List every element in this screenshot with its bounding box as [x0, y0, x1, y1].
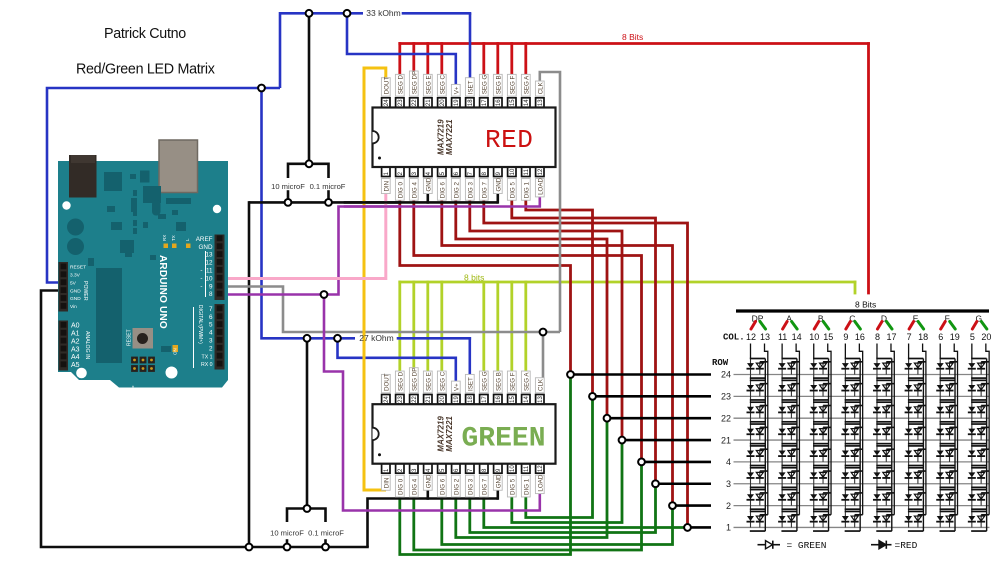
wire dark green DIG cascade pin x=441.8 to row node 6 [442, 495, 673, 545]
junction node row 4 [638, 459, 645, 466]
wire lime bus drop to matrix [854, 282, 857, 293]
junction node J7 [285, 199, 292, 206]
wire lime SEG stub x=441.8 [440, 282, 443, 374]
svg-text:GND: GND [70, 288, 81, 294]
matrix column C [841, 314, 865, 532]
matrix row 22 line [607, 417, 711, 420]
svg-text:ISET: ISET [467, 80, 474, 94]
svg-text:GND: GND [495, 474, 502, 488]
wire +5V blue riser to top rail [280, 13, 363, 88]
svg-text:21: 21 [426, 395, 432, 402]
svg-text:DIG 2: DIG 2 [453, 478, 460, 495]
svg-text:ISET: ISET [467, 377, 474, 391]
wire DIN pink from Arduino pin 10 to RED DIN [218, 192, 386, 279]
Arduino USB connector [159, 140, 198, 193]
wire red SEG stub x=497.8 [496, 44, 499, 77]
svg-text:13: 13 [205, 252, 213, 259]
svg-text:18: 18 [468, 395, 474, 402]
svg-text:6: 6 [209, 314, 213, 321]
junction node J5 [334, 335, 341, 342]
svg-text:A2: A2 [71, 338, 80, 345]
capacitor C1 10 microF lower lead [287, 192, 290, 203]
svg-text:Red/Green LED Matrix: Red/Green LED Matrix [76, 62, 215, 78]
Arduino crystal [152, 200, 161, 216]
wire LOAD purple patch over yellow/pink [345, 205, 400, 208]
wire +5V blue from Arduino 5V pin up left side [47, 88, 280, 283]
wire GND black bus under RED chip [249, 201, 498, 204]
wire dark green DIG cascade pin x=469.8 to row node 5 [470, 484, 656, 533]
wire dark red DIG cascade pin x=469.8 to row node 3 [470, 199, 622, 441]
svg-text:DIG 6: DIG 6 [439, 182, 446, 199]
resistor 27 kOhm (labelled gap in blue wire to GREEN ISET) [398, 337, 470, 340]
wire blue GREEN V+ branch [338, 338, 456, 383]
svg-text:LOAD: LOAD [537, 178, 544, 195]
svg-text:2: 2 [209, 345, 213, 352]
svg-text:SEG F: SEG F [509, 372, 516, 391]
wire red SEG stub x=399.8 [398, 44, 401, 77]
wire red bus drop to matrix [867, 44, 870, 294]
svg-text:11: 11 [206, 268, 213, 275]
capacitor C3 10 microF lower lead [286, 541, 289, 548]
svg-text:DIG 0: DIG 0 [397, 182, 404, 199]
svg-text:-: - [200, 283, 202, 290]
svg-text:22: 22 [412, 99, 418, 106]
svg-text:18: 18 [468, 99, 474, 106]
wire GND black bottom bus [249, 546, 368, 549]
svg-text:DOUT: DOUT [383, 373, 390, 391]
svg-text:24: 24 [721, 370, 731, 380]
svg-text:9: 9 [209, 283, 213, 290]
svg-text:RX 0: RX 0 [201, 362, 213, 368]
svg-text:= GREEN: = GREEN [787, 540, 827, 551]
svg-text:SEG B: SEG B [495, 372, 502, 391]
svg-text:11: 11 [778, 332, 787, 342]
svg-text:RESET: RESET [70, 265, 86, 271]
svg-text:1: 1 [726, 523, 731, 533]
svg-text:DIG 3: DIG 3 [467, 478, 474, 495]
svg-text:13: 13 [760, 332, 770, 342]
svg-text:17: 17 [482, 99, 488, 106]
junction node J4 [304, 335, 311, 342]
svg-text:SEG D: SEG D [397, 371, 404, 391]
svg-text:14: 14 [524, 395, 530, 402]
wire LOAD purple from Arduino pin 8 [218, 197, 540, 295]
svg-text:V+: V+ [453, 383, 460, 391]
capacitor bracket (GREEN chip decoupling pair) [287, 509, 326, 523]
svg-text:DOUT: DOUT [383, 77, 390, 95]
svg-text:8 bits: 8 bits [464, 273, 484, 283]
Arduino right header upper [215, 235, 225, 301]
matrix column B [809, 314, 833, 532]
svg-text:0.1 microF: 0.1 microF [308, 529, 344, 538]
svg-text:GND: GND [199, 244, 213, 251]
wire GND stub GREEN pin9 [496, 490, 499, 499]
junction node row 2 [669, 502, 676, 509]
svg-text:V+: V+ [453, 86, 460, 94]
svg-text:DIG 7: DIG 7 [481, 478, 488, 495]
svg-text:A0: A0 [71, 323, 80, 330]
svg-text:POWER: POWER [82, 281, 88, 301]
svg-text:CLK: CLK [537, 81, 544, 94]
svg-text:20: 20 [981, 332, 991, 342]
svg-text:SEG C: SEG C [439, 75, 446, 95]
svg-text:11: 11 [524, 465, 530, 472]
svg-text:TX 1: TX 1 [202, 354, 213, 360]
wire CLK gray riser to RED CLK [540, 72, 560, 332]
svg-text:2: 2 [726, 501, 731, 511]
svg-text:4: 4 [726, 457, 731, 467]
svg-text:10: 10 [510, 168, 516, 175]
svg-text:DIG 0: DIG 0 [397, 478, 404, 495]
svg-text:10 microF: 10 microF [270, 529, 304, 538]
svg-text:15: 15 [510, 395, 516, 402]
svg-text:GND: GND [495, 177, 502, 191]
LED matrix 8x8 bicolor [571, 300, 992, 533]
wire blue RED ISET drop [469, 13, 472, 81]
matrix row 21 line [622, 439, 711, 442]
wire dark red DIG cascade pin x=399.8 to row node 0 [400, 199, 571, 375]
wire dark red DIG cascade pin x=455.8 to row node 2 [456, 199, 607, 419]
svg-text:5V: 5V [70, 280, 77, 286]
svg-text:24: 24 [384, 99, 390, 106]
wire blue RED V+ branch [347, 13, 456, 87]
svg-text:13: 13 [538, 99, 544, 106]
wire red SEG stub x=511.8 [510, 44, 513, 77]
svg-text:ICSP: ICSP [131, 385, 136, 396]
svg-text:SEG DP: SEG DP [411, 71, 418, 94]
Arduino right header lower [215, 304, 225, 370]
svg-text:LOAD: LOAD [537, 474, 544, 491]
svg-text:18: 18 [918, 332, 928, 342]
capacitor bracket top (RED chip decoupling pair) [288, 164, 329, 178]
junction node J1 [258, 85, 265, 92]
matrix row 4 line [642, 461, 712, 464]
Arduino reset button [133, 328, 154, 349]
wire dark red DIG cascade pin x=441.8 to row node 6 [442, 199, 673, 506]
wire blue GREEN ISET drop [468, 338, 471, 377]
svg-text:DIG 4: DIG 4 [411, 478, 418, 495]
wire red SEG stub x=525.8 [524, 44, 527, 77]
svg-text:=RED: =RED [895, 540, 918, 551]
svg-text:Vin: Vin [70, 304, 77, 310]
wire dark red DIG cascade pin x=511.8 to row node 5 [512, 199, 656, 484]
svg-text:8: 8 [875, 332, 880, 342]
wire dark green DIG cascade pin x=399.8 to row node 0 [400, 375, 571, 555]
svg-text:19: 19 [454, 99, 460, 106]
svg-text:19: 19 [454, 395, 460, 402]
junction node row 24 [567, 371, 574, 378]
wire capacitor feed black from +5V rail [308, 13, 311, 164]
matrix 8 Bits top bus [736, 309, 989, 312]
svg-text:8 Bits: 8 Bits [855, 300, 876, 310]
svg-text:SEG B: SEG B [495, 75, 502, 94]
svg-text:10 microF: 10 microF [271, 182, 305, 191]
wire GND black drop from RED bus to bottom bus [248, 202, 251, 547]
Arduino TX RX L leds [164, 244, 169, 249]
wire dark green DIG cascade pin x=525.8 to row node 1 [526, 396, 593, 517]
svg-text:15: 15 [823, 332, 833, 342]
svg-text:10: 10 [510, 465, 516, 472]
wire lime SEG stub x=525.8 [524, 282, 527, 374]
legend green diode symbol [758, 540, 827, 551]
svg-text:SEG DP: SEG DP [411, 368, 418, 391]
wire lime 8 bits segment bus [400, 281, 855, 284]
svg-text:11: 11 [524, 168, 530, 175]
matrix column E [905, 314, 929, 532]
svg-text:27 kOhm: 27 kOhm [359, 333, 394, 343]
svg-text:22: 22 [412, 395, 418, 402]
svg-text:20: 20 [440, 99, 446, 106]
svg-text:-: - [200, 275, 202, 282]
svg-text:DIG 4: DIG 4 [411, 182, 418, 199]
svg-text:7: 7 [209, 306, 213, 313]
svg-text:12: 12 [538, 168, 544, 175]
svg-text:RESET: RESET [127, 329, 133, 346]
junction node J8 [325, 199, 332, 206]
svg-text:15: 15 [510, 99, 516, 106]
wire GND black from Arduino GND pin [41, 291, 249, 548]
junction node row 21 [619, 437, 626, 444]
junction node J13 [321, 291, 328, 298]
svg-text:AREF: AREF [196, 236, 213, 243]
wire dark green DIG cascade pin x=511.8 to row node 3 [512, 440, 622, 522]
wire lime SEG stub x=483.8 [482, 282, 485, 374]
matrix row 24 line [571, 373, 712, 376]
Arduino Uno board [58, 140, 228, 396]
junction node J6 [306, 160, 313, 167]
wire red SEG stub x=441.8 [440, 44, 443, 77]
Arduino left header POWER [59, 262, 69, 312]
junction node J2 [306, 10, 313, 17]
wire lime SEG stub x=427.8 [426, 282, 429, 374]
svg-text:DIG 7: DIG 7 [481, 182, 488, 199]
junction node row 3 [652, 480, 659, 487]
svg-text:24: 24 [384, 395, 390, 402]
capacitor C4 0.1 microF lower lead [324, 541, 327, 548]
svg-text:3.3V: 3.3V [70, 273, 81, 279]
matrix column A [778, 314, 802, 532]
svg-text:RX: RX [162, 235, 167, 241]
junction node J3 [344, 10, 351, 17]
svg-text:SEG E: SEG E [425, 75, 432, 94]
svg-text:A5: A5 [71, 362, 80, 369]
IC U1 MAX7219/MAX7221 (RED) [373, 71, 556, 200]
matrix row 23 line [593, 395, 712, 398]
wire lime SEG stub x=413.8 [412, 282, 415, 370]
svg-text:0.1 microF: 0.1 microF [310, 182, 346, 191]
svg-text:TX: TX [171, 235, 176, 241]
junction node J10 [284, 544, 291, 551]
svg-text:GREEN: GREEN [462, 424, 546, 455]
matrix row 1 line [688, 526, 712, 529]
matrix column F [936, 314, 960, 532]
svg-text:5: 5 [970, 332, 975, 342]
svg-text:DIG 2: DIG 2 [453, 182, 460, 199]
wire red SEG stub x=483.8 [482, 44, 485, 77]
svg-text:SEG E: SEG E [425, 372, 432, 391]
wire blue branch down to GREEN chip supply [262, 88, 356, 338]
svg-text:9: 9 [843, 332, 848, 342]
junction node J11 [322, 544, 329, 551]
svg-text:7: 7 [907, 332, 912, 342]
svg-text:ON: ON [173, 348, 178, 355]
svg-text:GND: GND [425, 474, 432, 488]
junction node J14 [540, 329, 547, 336]
svg-text:DIG 1: DIG 1 [523, 182, 530, 199]
svg-text:3: 3 [209, 338, 213, 345]
svg-text:SEG C: SEG C [439, 371, 446, 391]
svg-text:17: 17 [886, 332, 896, 342]
svg-text:12: 12 [205, 260, 213, 267]
wire CLK gray drop to GREEN CLK [542, 332, 545, 380]
svg-text:SEG D: SEG D [397, 75, 404, 95]
svg-text:SEG G: SEG G [481, 371, 488, 391]
Arduino ON led [161, 346, 171, 352]
svg-text:5: 5 [209, 322, 213, 329]
svg-text:DIGITAL (PWM~): DIGITAL (PWM~) [197, 305, 203, 344]
svg-text:Patrick Cutno: Patrick Cutno [104, 26, 186, 42]
wire GND stub GREEN pin4 [426, 490, 429, 499]
svg-text:8: 8 [209, 291, 213, 298]
wire dark green DIG cascade pin x=413.8 to row node 4 [414, 462, 642, 550]
svg-text:SEG G: SEG G [481, 75, 488, 95]
wire LOAD purple branch to GREEN chip [324, 295, 540, 511]
svg-text:23: 23 [398, 99, 404, 106]
svg-text:-: - [200, 267, 202, 274]
svg-text:COL.: COL. [723, 333, 745, 343]
wire red SEG stub x=413.8 [412, 44, 415, 73]
svg-text:MAX7221: MAX7221 [445, 416, 454, 452]
matrix column D [873, 314, 897, 532]
svg-text:8 Bits: 8 Bits [622, 32, 643, 42]
matrix row 3 line [656, 482, 712, 485]
wire dark green DIG cascade pin x=483.8 to row node 7 [484, 495, 688, 528]
svg-text:DIG 3: DIG 3 [467, 182, 474, 199]
Arduino dark components [104, 172, 122, 191]
svg-text:ROW: ROW [712, 358, 729, 368]
svg-text:RED: RED [485, 125, 533, 155]
junction node J9 [246, 544, 253, 551]
svg-text:SEG F: SEG F [509, 76, 516, 95]
wire lime SEG stub x=511.8 [510, 282, 513, 374]
svg-text:DIG 6: DIG 6 [439, 478, 446, 495]
wire CLK gray from Arduino pin 9 [218, 287, 560, 333]
wire GND stub RED pin9 [496, 194, 499, 203]
matrix row 2 line [673, 504, 712, 507]
svg-text:A1: A1 [71, 331, 80, 338]
svg-text:12: 12 [538, 465, 544, 472]
svg-text:GND: GND [425, 177, 432, 191]
svg-text:GND: GND [70, 296, 81, 302]
svg-text:10: 10 [809, 332, 819, 342]
wire dark red DIG cascade pin x=413.8 to row node 4 [414, 199, 642, 462]
svg-text:DIG 5: DIG 5 [509, 182, 516, 199]
resistor 33 kOhm (labelled gap in blue wire to RED ISET) [403, 12, 470, 15]
svg-text:33 kOhm: 33 kOhm [366, 8, 401, 18]
svg-text:3: 3 [726, 479, 731, 489]
wire dark red DIG cascade pin x=483.8 to row node 7 [484, 199, 688, 528]
legend red diode symbol [871, 540, 918, 551]
junction node J12 [304, 505, 311, 512]
svg-text:20: 20 [440, 395, 446, 402]
svg-text:SEG A: SEG A [523, 372, 530, 391]
svg-text:16: 16 [496, 395, 502, 402]
junction node row 23 [589, 393, 596, 400]
svg-text:A4: A4 [71, 354, 80, 361]
svg-text:4: 4 [209, 330, 213, 337]
svg-text:ARDUINO UNO: ARDUINO UNO [157, 255, 168, 329]
svg-text:12: 12 [746, 332, 756, 342]
svg-text:MAX7221: MAX7221 [445, 119, 454, 155]
svg-text:ANALOG IN: ANALOG IN [84, 331, 90, 360]
svg-text:DIN: DIN [383, 478, 390, 489]
wire red SEG stub x=427.8 [426, 44, 429, 77]
svg-text:17: 17 [482, 395, 488, 402]
wire GND stub RED pin4 [426, 194, 429, 203]
Arduino power jack [69, 155, 97, 198]
svg-text:23: 23 [721, 392, 731, 402]
svg-text:16: 16 [496, 99, 502, 106]
svg-text:16: 16 [855, 332, 865, 342]
svg-text:10: 10 [205, 275, 213, 282]
svg-text:A3: A3 [71, 346, 80, 353]
wire GND black riser to GREEN chip GND bus [368, 499, 498, 548]
matrix column G [968, 314, 992, 532]
svg-text:DIG 5: DIG 5 [509, 478, 516, 495]
wire dark red DIG cascade pin x=525.8 to row node 1 [526, 199, 593, 397]
IC U2 MAX7219/MAX7221 (GREEN) [373, 368, 556, 497]
capacitor C2 0.1 microF lower lead [327, 192, 330, 203]
wire lime SEG stub x=399.8 [398, 282, 401, 374]
wire capacitor feed black from GREEN supply junction [306, 338, 309, 508]
svg-text:6: 6 [938, 332, 943, 342]
svg-text:23: 23 [398, 395, 404, 402]
svg-text:21: 21 [721, 435, 731, 445]
Arduino electrolytic capacitors [67, 219, 84, 236]
wire dark green DIG cascade pin x=455.8 to row node 2 [456, 418, 607, 537]
wire DOUT yellow from RED DOUT to GREEN DIN [364, 68, 386, 490]
svg-text:21: 21 [426, 99, 432, 106]
Arduino left header ANALOG [59, 321, 69, 371]
svg-text:CLK: CLK [537, 378, 544, 391]
svg-text:DIN: DIN [383, 181, 390, 192]
Arduino ICSP header [131, 357, 138, 364]
svg-text:DIG 1: DIG 1 [523, 478, 530, 495]
Arduino mounting holes [62, 201, 70, 209]
svg-text:22: 22 [721, 413, 731, 423]
svg-text:SEG A: SEG A [523, 75, 530, 94]
wire red 8 Bits segment bus [400, 42, 869, 45]
svg-text:14: 14 [524, 99, 530, 106]
junction node row 1 [684, 524, 691, 531]
wire GND black bus patch over yellow/pink [345, 201, 400, 204]
wire lime SEG stub x=497.8 [496, 282, 499, 374]
matrix column DP [746, 314, 770, 532]
svg-text:19: 19 [950, 332, 960, 342]
svg-text:14: 14 [792, 332, 802, 342]
junction node row 22 [604, 415, 611, 422]
svg-text:13: 13 [538, 395, 544, 402]
